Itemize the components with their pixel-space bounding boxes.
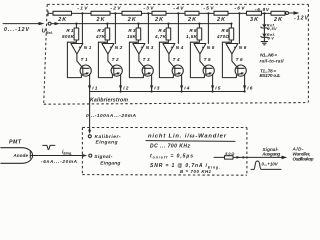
wire: R6 and feedback to op-amp N6 inverting input [222,42,231,43]
svg-text:-12V: -12V [294,15,309,21]
svg-text:i1: i1 [92,86,98,92]
transistor T5 [203,57,214,76]
svg-text:N2: N2 [115,45,123,50]
svg-text:Signal-: Signal- [94,154,112,160]
wire: feedback loop T4 source to N4 [159,42,173,77]
svg-text:R1: R1 [66,28,73,33]
resistor 2K (divider chain #4) [152,11,166,23]
op-amp N4 [163,44,184,55]
wire: Kalibrierstrom output drop [88,92,91,135]
wire: divider chain rail [48,11,286,16]
wire: converter output [214,156,225,158]
svg-text:0...-100nA...-20mA: 0...-100nA...-20mA [86,113,137,119]
svg-text:N6: N6 [239,45,247,50]
node: R1 top on U_Rel rail [75,23,77,25]
svg-text:-: - [104,44,106,49]
svg-text:Kalibrierstrom: Kalibrierstrom [90,98,128,104]
svg-text:1,5K: 1,5K [186,34,198,39]
svg-text:2K: 2K [96,17,106,23]
node: i6 junction on summing rail [244,90,246,92]
svg-text:ton/off = 0,5µs: ton/off = 0,5µs [150,153,193,159]
svg-text:-6nA...-20mA: -6nA...-20mA [41,159,77,164]
transistor T6 [235,57,246,76]
svg-text:N5: N5 [207,45,215,50]
wire: T2 drain to summing rail, current i2 [119,74,129,91]
svg-text:i6: i6 [247,86,253,92]
wire: T3 drain to summing rail, current i3 [150,74,160,91]
node: output junction [242,156,244,158]
node: tap -5V on divider chain [207,12,209,14]
node: tap -4V on divider chain [177,12,179,14]
wire: op-amp N5 output to gate of T5 [200,54,204,66]
node: R6 top on U_Rel rail [230,23,232,25]
dashed enclosure: I/f-Wandler (right) [246,128,248,176]
resistor R2 47K [95,24,110,43]
wire: op-amp N1 output to gate of T1 [77,54,81,66]
node: R3 top on U_Rel rail [137,23,139,25]
wire: summing rail for i1...i6 [90,91,245,93]
wire: op-amp N6 output to gate of T6 [232,54,236,66]
node: tap -6V on divider chain [238,12,240,14]
dashed enclosure: Kalibrierstrom source (top) [47,3,308,5]
svg-text:T2: T2 [112,57,119,62]
node: R4 top on U_Rel rail [167,23,169,25]
svg-text:2,5V: 2,5V [267,27,277,31]
wire: feedback loop T6 source to N6 [222,42,236,77]
svg-text:Oszilloskop: Oszilloskop [293,156,314,161]
node: tap -2V on divider chain [114,12,116,14]
wire: feedback loop T2 source to N2 [98,42,112,77]
node -6,8V junction [263,12,265,14]
svg-text:50Ω: 50Ω [225,152,234,156]
svg-text:-: - [196,44,198,49]
svg-text:2K: 2K [216,17,226,23]
op-amp N6 [226,44,247,55]
svg-text:0...+10V: 0...+10V [262,161,279,166]
svg-text:iEing.: iEing. [62,149,72,155]
node: R5 top on U_Rel rail [198,23,200,25]
wire: PMT anode to Signal-Eingang [31,154,87,157]
svg-text:R5: R5 [189,28,196,33]
wire: op-amp N4 output to gate of T4 [169,54,173,66]
svg-text:470Ω: 470Ω [216,34,229,39]
waveform: output pulse 0...+10V [251,161,281,169]
svg-text:BS170 o.ä.: BS170 o.ä. [260,73,281,78]
svg-text:-3V: -3V [143,6,154,12]
wire: op-amp N2 output to gate of T2 [108,54,112,66]
svg-text:nicht Lin. i/ω-Wandler: nicht Lin. i/ω-Wandler [148,133,227,139]
dashed enclosure: I/f-Wandler (left) [81,128,83,175]
svg-text:R6: R6 [221,28,228,33]
svg-text:N4: N4 [176,45,184,50]
svg-text:i2: i2 [123,86,129,92]
svg-text:3K: 3K [250,17,259,23]
node: i2 junction on summing rail [120,90,122,92]
transistor T4 [172,57,183,76]
svg-text:N1: N1 [84,45,92,50]
transistor T2 [111,57,122,76]
wire: op-amp N3 output to gate of T3 [139,54,143,66]
resistor 2K (divider chain #8) [271,11,285,23]
op-amp N3 [133,44,154,55]
resistor 2K (divider chain #6) [214,11,228,23]
svg-text:URel.: URel. [42,29,53,35]
terminal: Signal-Eingang [89,154,92,157]
photomultiplier PMT envelope [1,148,33,164]
svg-text:DC ... 700 KHz: DC ... 700 KHz [150,144,191,150]
svg-text:i4: i4 [184,86,190,92]
wire: output to Signal-Ausgang [233,156,287,160]
resistor 2K (divider chain #2) [91,11,110,23]
svg-text:T4: T4 [173,57,180,62]
electrode: anode bar [29,151,31,158]
svg-text:-4V: -4V [173,6,184,12]
svg-text:T5: T5 [204,57,211,62]
node: i3 junction on summing rail [151,90,153,92]
node: i5 junction on summing rail [212,90,214,92]
dashed enclosure: Kalibrierstrom source (left) [44,4,48,104]
ground [261,42,268,45]
svg-text:R4: R4 [158,28,165,33]
svg-text:N3: N3 [146,45,154,50]
svg-text:-6,8V: -6,8V [255,7,270,12]
svg-text:2K: 2K [273,17,283,23]
divider under title [146,140,235,143]
svg-text:-6V: -6V [234,6,245,12]
svg-text:2K: 2K [127,17,137,23]
svg-text:-: - [135,44,137,49]
svg-text:-: - [73,44,75,49]
svg-text:2K: 2K [154,17,164,23]
svg-text:47K: 47K [95,34,106,39]
svg-text:B = 700 KHz: B = 700 KHz [180,169,212,174]
svg-text:Kalibrier-: Kalibrier- [95,134,121,140]
node: tap -1V on divider chain [81,12,83,14]
svg-text:-2V: -2V [110,6,121,12]
terminal: -12V supply [286,11,300,14]
dashed enclosure: Kalibrierstrom source (bottom) [44,103,309,105]
svg-text:Eingang: Eingang [100,161,120,167]
wire: U_Rel rail [60,23,232,25]
dashed enclosure: Kalibrierstrom source (right) [307,4,309,102]
svg-text:-1V: -1V [77,6,88,12]
node: R2 top on U_Rel rail [106,23,108,25]
transistor T3 [142,57,153,76]
svg-text:i5: i5 [215,86,221,92]
svg-text:500K: 500K [62,34,75,39]
resistor R5 1,5K [186,24,202,43]
resistor 2K (divider chain #3) [122,11,142,23]
wire: R5 and feedback to op-amp N5 inverting input [190,42,199,43]
svg-text:T1: T1 [81,57,88,62]
dashed enclosure: I/f-Wandler (top) [82,127,247,129]
svg-text:0...-12V: 0...-12V [4,27,30,33]
svg-text:R3: R3 [128,28,135,33]
wire: T6 drain to summing rail, current i6 [243,74,253,91]
svg-text:5V: 5V [268,37,274,41]
wire: -4V tap to op-amp N4 input [177,13,179,43]
terminal: Kalibrier-Eingang [88,135,91,138]
transistor T1 [80,57,91,76]
wire: feedback loop T1 source to N1 [67,42,81,77]
svg-text:15K: 15K [127,34,137,39]
svg-text:Anode: Anode [13,153,29,158]
svg-text:2K: 2K [57,17,67,23]
wire: T5 drain to summing rail, current i5 [211,74,221,91]
svg-text:-5V: -5V [203,6,214,12]
resistor 2K (divider chain #5) [185,11,199,23]
wire: feedback loop T5 source to N5 [190,42,204,77]
svg-text:Eingang: Eingang [96,139,118,145]
svg-text:-: - [165,44,167,49]
resistor 3K (divider chain #7) [247,11,262,23]
wire: -5V tap to op-amp N5 input [207,13,209,43]
svg-text:4,7K: 4,7K [154,34,167,39]
resistor 2K (divider chain #1) [53,11,72,23]
resistor 50Ω (output) [225,152,235,159]
wire: -6,8V node to zener chain [263,13,265,24]
wire: R4 and feedback to op-amp N4 inverting input [159,42,168,43]
wire: input 0...-12V with arrow [3,22,45,25]
svg-text:T3: T3 [143,57,150,62]
svg-text:i3: i3 [154,86,160,92]
wire: feedback loop T3 source to N3 [129,42,143,77]
node: i4 junction on summing rail [181,90,183,92]
terminal: U_Rel input node [48,22,60,25]
svg-text:N1...N6 =: N1...N6 = [260,53,277,58]
wire: -6V tap to op-amp N6 input [238,13,240,43]
svg-text:PMT: PMT [9,140,22,146]
svg-text:rail-to-rail: rail-to-rail [260,58,285,63]
resistor R6 470Ω [216,24,234,43]
wire: T4 drain to summing rail, current i4 [180,74,190,91]
svg-text:R2: R2 [97,28,104,33]
wire: R1 and feedback to op-amp N1 inverting input [67,42,76,43]
resistor R1 500K [62,24,79,43]
op-amp N5 [194,44,215,55]
svg-text:-: - [228,44,230,49]
wire: R2 and feedback to op-amp N2 inverting input [98,42,107,43]
resistor R3 15K [127,24,141,43]
waveform: negative input pulse [43,145,55,149]
zener diode Ref. 2,5V [261,24,268,33]
zener diode Ref. 5V [261,34,268,42]
svg-text:2K: 2K [187,17,197,23]
svg-text:Ausgang: Ausgang [261,151,280,156]
wire: R3 and feedback to op-amp N3 inverting input [129,42,138,43]
op-amp N1 [71,44,92,55]
wire: -3V tap to op-amp N3 input [147,13,149,43]
svg-text:T6: T6 [236,57,243,62]
wire: -1V tap to op-amp N1 input [81,13,83,43]
dashed enclosure: I/f-Wandler (bottom) [82,174,247,177]
node: tap -3V on divider chain [147,12,149,14]
resistor R4 4,7K [154,24,171,43]
wire: T1 drain to summing rail, current i1 [88,74,98,91]
wire: -2V tap to op-amp N2 input [114,13,116,43]
op-amp N2 [102,44,123,55]
